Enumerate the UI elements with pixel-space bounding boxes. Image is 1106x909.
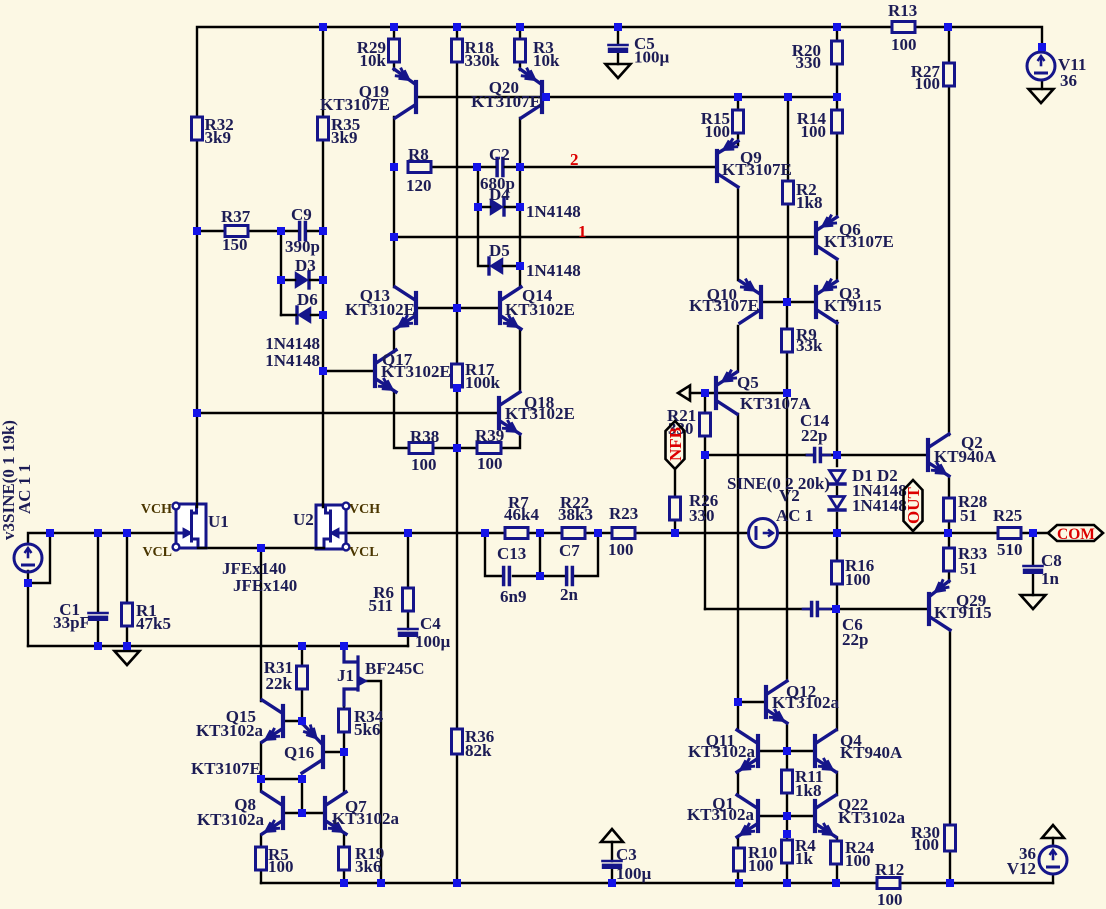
resistor R38	[409, 443, 433, 454]
svg-text:D6: D6	[297, 290, 318, 309]
svg-text:AC 1: AC 1	[776, 506, 813, 525]
resistor R10	[734, 848, 745, 871]
junction (485,533)	[481, 529, 489, 537]
wire y779 Q16-Q8 link	[261, 778, 302, 780]
transistor Q7	[323, 798, 327, 828]
wire R21 column x705	[704, 393, 706, 609]
wire Q12 base y702	[738, 701, 765, 703]
svg-text:KT3107A: KT3107A	[740, 394, 812, 413]
svg-text:22k: 22k	[266, 674, 293, 693]
svg-text:1N4148: 1N4148	[265, 351, 320, 370]
junction (836,883)	[832, 879, 840, 887]
capacitor C4	[399, 628, 418, 631]
svg-text:22p: 22p	[801, 426, 827, 445]
transistor Q12	[764, 687, 768, 717]
svg-text:KT9115: KT9115	[934, 603, 992, 622]
svg-text:VCH: VCH	[141, 502, 172, 517]
junction (598,533)	[594, 529, 602, 537]
svg-text:51: 51	[960, 506, 977, 525]
svg-text:U1: U1	[208, 512, 229, 531]
junction (323,231)	[319, 227, 327, 235]
svg-text:VCH: VCH	[349, 502, 380, 517]
resistor R13	[892, 22, 915, 33]
junction (98,533)	[94, 529, 102, 537]
svg-text:R25: R25	[993, 506, 1022, 525]
resistor R7	[505, 528, 528, 539]
svg-text:330k: 330k	[465, 51, 501, 70]
transistor Q5	[714, 378, 718, 408]
junction (302,779)	[298, 775, 306, 783]
resistor R9	[782, 329, 793, 352]
svg-text:1k8: 1k8	[795, 781, 821, 800]
resistor R28	[944, 498, 955, 521]
svg-text:330: 330	[796, 53, 822, 72]
junction (197,413)	[193, 409, 201, 417]
svg-text:R37: R37	[221, 207, 251, 226]
tie arrow at Q5 base	[678, 386, 690, 401]
svg-text:47k5: 47k5	[136, 614, 171, 633]
junction (520,27)	[516, 23, 524, 31]
wire R6-C4 column x408	[407, 533, 409, 646]
resistor R22	[562, 528, 585, 539]
svg-text:NFB: NFB	[666, 427, 685, 461]
diode D2	[830, 497, 845, 509]
junction (675,533)	[671, 529, 679, 537]
svg-text:C7: C7	[559, 541, 580, 560]
junction (457,388)	[453, 384, 461, 392]
wire Q11-Q4 base y751	[759, 750, 814, 752]
transistor Q17	[373, 356, 377, 386]
svg-text:510: 510	[997, 540, 1023, 559]
resistor R4	[782, 840, 793, 863]
wire node 2 run y167	[520, 166, 716, 168]
capacitor C8	[1024, 565, 1043, 568]
svg-text:22p: 22p	[842, 630, 868, 649]
resistor R36	[452, 729, 463, 754]
svg-text:C8: C8	[1041, 551, 1062, 570]
resistor R15	[733, 110, 744, 133]
resistor R17	[452, 364, 463, 387]
wire C1 column x98	[97, 533, 99, 646]
svg-text:36: 36	[1060, 71, 1077, 90]
svg-text:33k: 33k	[796, 336, 823, 355]
wire Q10 base to R9 top	[762, 301, 816, 303]
svg-text:390p: 390p	[285, 237, 320, 256]
diode D1	[830, 471, 845, 483]
transistor Q19	[414, 82, 418, 112]
junction (323,371)	[319, 367, 327, 375]
wire x261 column to Q15	[260, 548, 262, 883]
junction (50,533)	[46, 529, 54, 537]
svg-text:D5: D5	[489, 241, 510, 260]
junction (261,548)	[257, 544, 265, 552]
resistor R6	[403, 588, 414, 611]
wire R2-R9-Q12col column x787	[787, 97, 788, 883]
junction (948,533)	[944, 529, 952, 537]
junction (457,27)	[453, 23, 461, 31]
junction (546,97)	[542, 93, 550, 101]
svg-text:1N4148: 1N4148	[852, 496, 907, 515]
svg-text:38k3: 38k3	[558, 505, 593, 524]
svg-text:C4: C4	[420, 614, 441, 633]
transistor Q16	[321, 737, 325, 767]
resistor R8	[408, 162, 431, 173]
svg-text:100µ: 100µ	[415, 632, 451, 651]
net flag OUT	[904, 480, 923, 531]
diode D4	[491, 200, 503, 215]
transistor Q22	[813, 801, 817, 831]
wire U1-U2 source rail y548	[176, 547, 316, 549]
svg-text:KT3102a: KT3102a	[688, 742, 756, 761]
resistor R29	[389, 39, 400, 62]
transistor Q9	[715, 151, 719, 181]
svg-text:KT3102E: KT3102E	[505, 300, 575, 319]
junction (127,533)	[123, 529, 131, 537]
svg-text:100: 100	[748, 856, 774, 875]
svg-text:51: 51	[960, 559, 977, 578]
transistor Q10	[759, 287, 763, 317]
svg-text:KT3107E: KT3107E	[471, 92, 541, 111]
wire top supply rail	[197, 27, 1042, 504]
wire R29 column x394	[394, 27, 409, 448]
wire R38 R39 row y448	[433, 447, 477, 449]
wire node 1 run y237	[394, 236, 815, 238]
junction (950,883)	[946, 879, 954, 887]
svg-text:KT3107E: KT3107E	[191, 759, 261, 778]
wire Q8-Q7 base y813	[284, 812, 324, 814]
svg-text:3k9: 3k9	[331, 128, 357, 147]
svg-text:V12: V12	[1007, 859, 1036, 878]
diode D3	[296, 273, 308, 288]
resistor R20	[832, 41, 843, 64]
svg-text:2: 2	[570, 150, 579, 169]
svg-text:100: 100	[705, 122, 731, 141]
junction (302,813)	[298, 809, 306, 817]
wire C5 stub	[617, 27, 619, 64]
source V11	[1027, 52, 1055, 80]
transistor Q2	[926, 440, 930, 470]
svg-text:3k9: 3k9	[205, 128, 231, 147]
resistor R35	[318, 117, 329, 140]
svg-text:100: 100	[411, 455, 437, 474]
svg-text:JFEx140: JFEx140	[233, 576, 297, 595]
svg-text:1N4148: 1N4148	[526, 202, 581, 221]
svg-text:511: 511	[368, 596, 393, 615]
net flag NFB	[666, 421, 685, 469]
wire C8 column x1033	[1032, 533, 1034, 595]
svg-text:100: 100	[801, 122, 827, 141]
svg-text:VCL: VCL	[349, 545, 379, 560]
resistor R3	[515, 39, 526, 62]
junction (457,308)	[453, 304, 461, 312]
svg-text:KT3102E: KT3102E	[505, 404, 575, 423]
svg-text:1N4148: 1N4148	[526, 261, 581, 280]
wire y413 to Q18 base	[197, 412, 497, 414]
svg-text:KT3102E: KT3102E	[381, 362, 451, 381]
resistor R16	[832, 561, 843, 584]
junction (344,646)	[340, 642, 348, 650]
resistor R24	[831, 841, 842, 864]
transistor Q1	[756, 801, 760, 831]
svg-text:KT3107E: KT3107E	[320, 95, 390, 114]
resistor R14	[832, 110, 843, 133]
svg-text:1: 1	[578, 222, 587, 241]
resistor R39	[477, 443, 501, 454]
wire V3 negative loop	[28, 533, 50, 646]
junction (394,167)	[390, 163, 398, 171]
wire Q15 base y721	[284, 720, 302, 722]
resistor R18	[452, 39, 463, 62]
resistor R5	[256, 847, 267, 870]
wire C3 column x612	[611, 842, 613, 883]
svg-text:KT3102a: KT3102a	[197, 810, 265, 829]
junction (323,280)	[319, 276, 327, 284]
wire NFB-R26 column x675	[674, 469, 676, 533]
transistor Q15	[281, 706, 285, 736]
svg-text:33pF: 33pF	[53, 613, 90, 632]
svg-text:150: 150	[222, 235, 248, 254]
svg-text:R8: R8	[408, 145, 429, 164]
junction (381,883)	[377, 879, 385, 887]
transistor Q18	[497, 398, 501, 428]
junction (705,393)	[701, 389, 709, 397]
ground below R1	[115, 651, 140, 665]
wire V11 lower stub	[1041, 80, 1043, 89]
wire main output row y533	[28, 533, 1048, 544]
junction (837,27)	[833, 23, 841, 31]
wire ground rail y646	[28, 645, 408, 647]
svg-text:R13: R13	[888, 1, 917, 20]
power arrow above V12	[1042, 825, 1064, 838]
jfet J1 BF245C	[344, 646, 358, 705]
transistor Q6	[814, 223, 818, 253]
svg-text:C2: C2	[489, 145, 510, 164]
svg-text:COM: COM	[1057, 526, 1095, 543]
junction (948,27)	[944, 23, 952, 31]
junction (394,27)	[390, 23, 398, 31]
svg-text:Q5: Q5	[737, 373, 759, 392]
junction (1042,47)	[1038, 43, 1046, 51]
wire Q5 base y393	[690, 392, 787, 394]
svg-text:5k6: 5k6	[354, 720, 380, 739]
junction (787,883)	[783, 879, 791, 887]
capacitor C9	[298, 223, 302, 240]
svg-text:C3: C3	[616, 845, 637, 864]
junction (788,97)	[784, 93, 792, 101]
diode D5	[491, 259, 503, 274]
svg-text:46k4: 46k4	[504, 505, 539, 524]
jfet U1 JFEx140	[176, 504, 206, 548]
junction (705,455)	[701, 451, 709, 459]
junction (520,167)	[516, 163, 524, 171]
svg-text:BF245C: BF245C	[365, 659, 425, 678]
svg-text:U2: U2	[293, 510, 314, 529]
resistor R37	[225, 226, 248, 237]
svg-text:KT3107E: KT3107E	[722, 160, 792, 179]
svg-text:100: 100	[914, 835, 940, 854]
junction (28,583)	[24, 579, 32, 587]
junction (787,393)	[783, 389, 791, 397]
svg-text:KT3102a: KT3102a	[838, 808, 906, 827]
svg-text:KT3102a: KT3102a	[196, 721, 264, 740]
wire R15-Q9-Q10-Q5-Q12-Q11-Q1-R10 column x738	[737, 97, 739, 883]
junction (738,702)	[734, 698, 742, 706]
transistor Q20	[540, 82, 544, 112]
capacitor C5	[609, 44, 628, 47]
svg-text:Q16: Q16	[284, 743, 314, 762]
resistor R34	[339, 709, 350, 732]
junction (540,576)	[536, 572, 544, 580]
junction (261,779)	[257, 775, 265, 783]
svg-text:KT3102E: KT3102E	[345, 300, 415, 319]
svg-text:3k6: 3k6	[355, 857, 381, 876]
svg-text:KT940A: KT940A	[934, 447, 997, 466]
source V3 sine	[14, 544, 42, 572]
resistor R33	[944, 548, 955, 571]
junction (739,883)	[735, 879, 743, 887]
net flag COM	[1048, 525, 1103, 541]
junction (478,207)	[474, 203, 482, 211]
svg-text:100: 100	[477, 454, 503, 473]
svg-text:R12: R12	[875, 860, 904, 879]
capacitor C1	[89, 612, 108, 615]
wire R27-Q2-R28-R33-Q29-R30 column x949	[949, 27, 950, 883]
ground below C8	[1021, 595, 1046, 609]
junction (457,883)	[453, 879, 461, 887]
resistor R21	[700, 413, 711, 436]
junction (787,302)	[783, 298, 791, 306]
junction (837,533)	[833, 529, 841, 537]
junction (408,533)	[404, 529, 412, 537]
resistor R11	[782, 770, 793, 793]
svg-text:100k: 100k	[465, 373, 501, 392]
transistor Q14	[498, 293, 502, 323]
transistor Q11	[756, 736, 760, 766]
junction (612,883)	[608, 879, 616, 887]
resistor R1	[122, 603, 133, 626]
svg-text:C9: C9	[291, 205, 312, 224]
junction (477,167)	[473, 163, 481, 171]
junction (323,27)	[319, 23, 327, 31]
svg-text:100: 100	[268, 857, 294, 876]
wire R20-R14-Q6-Q3-D1-D2-R16-Q4-R24 column x837	[836, 27, 838, 883]
resistor R31	[297, 666, 308, 689]
svg-text:10k: 10k	[360, 51, 387, 70]
junction (738,97)	[734, 93, 742, 101]
wire Q17 base y371	[323, 370, 373, 372]
svg-text:R38: R38	[410, 427, 439, 446]
svg-text:R23: R23	[609, 504, 638, 523]
svg-text:100µ: 100µ	[616, 864, 652, 883]
svg-text:C13: C13	[497, 544, 526, 563]
power arrow above C3	[601, 829, 623, 842]
junction (836,609)	[832, 605, 840, 613]
svg-text:J1: J1	[337, 666, 354, 685]
junction (618,27)	[614, 23, 622, 31]
svg-text:1k8: 1k8	[796, 193, 822, 212]
diode D6	[299, 308, 311, 323]
wire C7 bracket	[540, 533, 598, 576]
svg-text:120: 120	[406, 176, 432, 195]
junction (281,231)	[277, 227, 285, 235]
junction (540,533)	[536, 529, 544, 537]
svg-text:KT940A: KT940A	[840, 743, 903, 762]
transistor Q29	[927, 594, 931, 624]
svg-text:1n: 1n	[1041, 569, 1060, 588]
resistor R27	[944, 63, 955, 86]
ground below V11	[1029, 89, 1054, 103]
wire y455 Q2 base row	[705, 454, 927, 456]
transistor Q8	[281, 798, 285, 828]
junction (457,448)	[453, 444, 461, 452]
wire R37 row y231	[197, 230, 281, 232]
svg-text:OUT: OUT	[904, 487, 923, 525]
wire V12 riser	[1052, 838, 1054, 883]
svg-text:100: 100	[845, 851, 871, 870]
svg-text:100: 100	[891, 35, 917, 54]
transistor Q3	[814, 287, 818, 317]
capacitor C6	[810, 603, 814, 616]
svg-text:KT9115: KT9115	[824, 296, 882, 315]
svg-text:2n: 2n	[560, 585, 579, 604]
junction (787,751)	[783, 747, 791, 755]
svg-text:100: 100	[608, 540, 634, 559]
svg-text:D4: D4	[489, 185, 510, 204]
wire R3-Q20-Q14-Q18 column x520	[501, 27, 520, 448]
wire C9-D3-D6 left column x281	[280, 231, 282, 315]
wire R8-C2 row y167	[430, 166, 477, 168]
svg-text:VCL: VCL	[142, 545, 172, 560]
svg-text:KT3102a: KT3102a	[772, 693, 840, 712]
source V12	[1039, 846, 1067, 874]
junction (344,883)	[340, 879, 348, 887]
ground below C5	[606, 64, 631, 78]
svg-text:1k: 1k	[795, 849, 814, 868]
wire J1 gate run	[364, 681, 381, 883]
svg-text:KT3107E: KT3107E	[824, 232, 894, 251]
transistor Q13	[414, 293, 418, 323]
svg-text:100µ: 100µ	[634, 48, 670, 67]
svg-text:D3: D3	[295, 256, 316, 275]
resistor R19	[339, 847, 350, 870]
wire R34-Q7-R19 column x344	[343, 646, 345, 883]
source V2 sine	[749, 519, 778, 548]
junction (197,231)	[193, 227, 201, 235]
wire Q1-Q22 base y816	[759, 815, 814, 817]
junction (787,816)	[783, 812, 791, 820]
capacitor C14	[813, 449, 817, 462]
svg-text:KT3102a: KT3102a	[332, 809, 400, 828]
svg-text:330: 330	[689, 506, 715, 525]
resistor R26	[670, 497, 681, 520]
junction (344,752)	[340, 748, 348, 756]
capacitor C7	[565, 568, 569, 585]
wire bottom rail y883	[261, 882, 1053, 884]
junction (302,721)	[298, 717, 306, 725]
junction (394,237)	[390, 233, 398, 241]
wire C6 row y609	[705, 608, 928, 610]
svg-text:KT3102a: KT3102a	[687, 805, 755, 824]
svg-text:100: 100	[877, 890, 903, 909]
svg-text:82k: 82k	[465, 741, 492, 760]
wire R35-U2 column x323	[322, 27, 324, 505]
capacitor C13	[502, 568, 506, 585]
transistor Q4	[813, 736, 817, 766]
junction (837,455)	[833, 451, 841, 459]
wire R31 column x302	[301, 646, 303, 813]
wire Q13-Q14 base y308	[417, 307, 498, 309]
junction (520,207)	[516, 203, 524, 211]
